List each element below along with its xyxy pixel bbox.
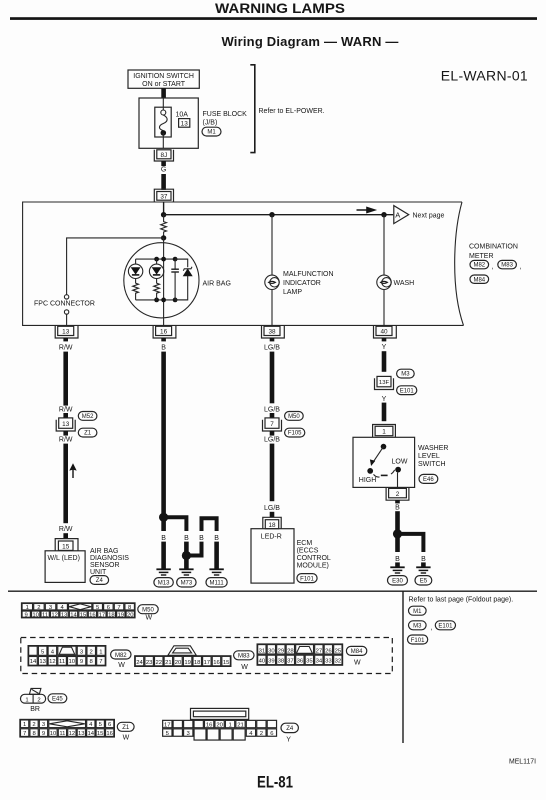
connector plug Z1 xyxy=(20,719,115,737)
svg-text:B: B xyxy=(161,345,166,352)
svg-text:18: 18 xyxy=(108,612,115,618)
svg-text:INDICATOR: INDICATOR xyxy=(283,280,321,287)
svg-text:LG/B: LG/B xyxy=(264,345,280,352)
svg-text:LG/B: LG/B xyxy=(264,437,280,444)
refer column separator xyxy=(402,591,404,743)
svg-text:R/W: R/W xyxy=(59,526,73,533)
next page triangle A xyxy=(394,206,445,224)
svg-text:W: W xyxy=(118,662,125,669)
node top junction xyxy=(161,212,166,217)
wire third branch upper xyxy=(202,518,217,531)
svg-text:15: 15 xyxy=(80,612,87,618)
connector oval E46 xyxy=(419,474,438,483)
fuse 10A (fuse element) xyxy=(155,98,171,148)
svg-text:2: 2 xyxy=(32,722,35,728)
svg-text:B: B xyxy=(199,535,204,542)
svg-text:,: , xyxy=(520,264,522,271)
svg-text:M50: M50 xyxy=(288,414,300,420)
connector 13 (meter) xyxy=(55,326,78,338)
svg-text:M1: M1 xyxy=(207,130,216,136)
connector oval E101 xyxy=(397,386,417,395)
svg-text:15: 15 xyxy=(223,660,230,666)
wire stub under 38 xyxy=(270,338,275,341)
wash lamp wire xyxy=(381,212,386,217)
ECM label xyxy=(297,540,331,570)
wire stub above 15 xyxy=(63,533,68,538)
svg-text:40: 40 xyxy=(380,329,388,336)
svg-text:16: 16 xyxy=(89,612,96,618)
inline connector 13 (M52/Z1) xyxy=(56,418,75,431)
node M73 junction xyxy=(182,551,191,560)
svg-text:2: 2 xyxy=(37,697,40,703)
svg-text:FPC CONNECTOR: FPC CONNECTOR xyxy=(34,301,95,308)
bottom bus in air bag xyxy=(136,299,188,301)
wire B to ground M13 xyxy=(161,542,166,569)
wire G vertical xyxy=(161,174,166,190)
switch contact LOW xyxy=(395,467,401,473)
svg-text:2: 2 xyxy=(396,491,400,498)
svg-text:W: W xyxy=(354,659,361,666)
svg-text:E46: E46 xyxy=(423,477,434,483)
connector oval E101 (refer) xyxy=(435,621,455,630)
svg-text:EL-81: EL-81 xyxy=(257,772,293,791)
wire color B labels row xyxy=(161,535,219,542)
svg-text:13F: 13F xyxy=(379,380,390,386)
svg-text:E30: E30 xyxy=(392,579,403,585)
svg-text:35: 35 xyxy=(306,659,313,665)
connector plug E45 xyxy=(21,688,46,703)
dashed meter-connector group box xyxy=(21,638,393,674)
svg-text:11: 11 xyxy=(59,659,65,665)
svg-text:A: A xyxy=(395,211,400,220)
svg-text:3: 3 xyxy=(80,649,84,655)
svg-text:Next page: Next page xyxy=(413,212,445,219)
svg-text:13: 13 xyxy=(62,329,70,336)
svg-text:Y: Y xyxy=(382,396,387,403)
svg-text:(ECCS: (ECCS xyxy=(297,547,319,554)
connector oval M50 (inline) xyxy=(285,412,304,421)
svg-text:1: 1 xyxy=(382,429,386,436)
connector 15 (air bag unit) xyxy=(55,539,78,551)
svg-text:IGNITION SWITCH: IGNITION SWITCH xyxy=(133,73,194,80)
wire B to ground M111 xyxy=(214,542,219,569)
svg-text:12: 12 xyxy=(49,659,56,665)
svg-text:B: B xyxy=(395,504,400,511)
switch pivot xyxy=(381,444,387,450)
connector oval M83 xyxy=(234,651,254,671)
svg-text:LOW: LOW xyxy=(392,459,408,466)
svg-text:CONTROL: CONTROL xyxy=(297,555,331,562)
svg-text:1: 1 xyxy=(228,722,231,728)
svg-text:F101: F101 xyxy=(411,638,425,644)
malfunction indicator lamp wire xyxy=(269,212,274,217)
svg-text:ECM: ECM xyxy=(297,540,313,547)
wire B vertical xyxy=(161,352,166,515)
washer level switch box xyxy=(353,437,415,487)
svg-text:E45: E45 xyxy=(52,697,63,703)
wire Y vertical lower xyxy=(382,403,387,422)
svg-text:M73: M73 xyxy=(181,581,193,587)
svg-text:W/L (LED): W/L (LED) xyxy=(48,555,80,562)
svg-text:7: 7 xyxy=(23,731,26,737)
diagram id EL-WARN-01 xyxy=(441,68,528,84)
ground M111 xyxy=(209,569,223,575)
svg-text:31: 31 xyxy=(259,648,266,654)
svg-text:M52: M52 xyxy=(82,414,94,420)
svg-text:M82: M82 xyxy=(473,263,485,269)
svg-text:4: 4 xyxy=(51,649,55,655)
label FUSE BLOCK (J/B) xyxy=(203,111,248,127)
svg-text:29: 29 xyxy=(278,648,285,654)
FPC connector xyxy=(34,295,95,326)
svg-text:LG/B: LG/B xyxy=(264,505,280,512)
svg-text:B: B xyxy=(184,535,189,542)
fuse block box xyxy=(139,98,198,148)
svg-text:B: B xyxy=(421,556,426,563)
svg-text:MALFUNCTION: MALFUNCTION xyxy=(283,271,334,278)
wire stub below inline 13 xyxy=(63,431,68,436)
svg-text:EL-WARN-01: EL-WARN-01 xyxy=(441,68,528,84)
connector oval F105 xyxy=(285,428,305,437)
connector plug Z4 xyxy=(163,708,277,740)
svg-text:M83: M83 xyxy=(501,263,513,269)
bus junction dots xyxy=(154,257,177,303)
connector oval M82 xyxy=(470,260,494,270)
svg-text:W: W xyxy=(123,735,130,742)
svg-text:20: 20 xyxy=(127,612,134,618)
svg-text:HIGH: HIGH xyxy=(359,477,377,484)
combination meter label xyxy=(469,244,518,261)
svg-text:SWITCH: SWITCH xyxy=(418,461,446,468)
wire stub under 13 xyxy=(63,338,68,341)
connector 8J xyxy=(154,150,173,161)
svg-text:W: W xyxy=(241,664,248,671)
connector oval M82 xyxy=(111,650,131,669)
switch arm with arrowhead xyxy=(370,447,384,466)
wire LG/B vertical lower xyxy=(270,444,275,502)
svg-text:SENSOR: SENSOR xyxy=(90,562,120,569)
wire branch right from B junction xyxy=(164,517,187,531)
svg-text:Y: Y xyxy=(286,736,291,743)
svg-text:WARNING LAMPS: WARNING LAMPS xyxy=(215,1,345,16)
connector oval M1 xyxy=(202,127,221,136)
bracket refer to EL-POWER xyxy=(250,65,255,153)
svg-text:13: 13 xyxy=(39,659,46,665)
svg-text:2: 2 xyxy=(90,649,93,655)
svg-text:2: 2 xyxy=(260,731,263,737)
svg-text:16: 16 xyxy=(160,329,168,336)
wire Y vertical xyxy=(382,351,387,372)
svg-text:,: , xyxy=(492,264,494,271)
svg-text:FUSE BLOCK: FUSE BLOCK xyxy=(203,111,248,118)
svg-text:DIAGNOSIS: DIAGNOSIS xyxy=(90,555,129,562)
connector oval E45 xyxy=(30,694,67,713)
svg-text:9: 9 xyxy=(25,612,28,618)
svg-text:21: 21 xyxy=(237,722,244,728)
inline connector 13F (M3/E101) xyxy=(375,376,394,389)
connector 1 (washer switch) xyxy=(373,425,396,438)
svg-text:M82: M82 xyxy=(115,653,127,659)
svg-text:37: 37 xyxy=(160,193,168,200)
svg-text:26: 26 xyxy=(325,648,332,654)
svg-text:14: 14 xyxy=(70,612,77,618)
svg-text:28: 28 xyxy=(287,648,294,654)
wire horizontal bus to next page xyxy=(164,214,394,216)
svg-text:G: G xyxy=(161,167,166,174)
footer separator line xyxy=(8,590,537,592)
svg-text:1: 1 xyxy=(23,722,26,728)
connector 40 (meter) xyxy=(374,326,397,338)
svg-text:R/W: R/W xyxy=(59,437,73,444)
svg-text:1: 1 xyxy=(99,649,102,655)
connector oval M50 (plug) xyxy=(138,605,158,622)
svg-text:40: 40 xyxy=(259,659,266,665)
connector oval F101 xyxy=(297,574,317,583)
svg-text:13: 13 xyxy=(181,120,189,127)
svg-text:E5: E5 xyxy=(420,579,428,585)
svg-text:LAMP: LAMP xyxy=(283,289,302,296)
svg-text:32: 32 xyxy=(335,659,342,665)
svg-text:37: 37 xyxy=(287,659,294,665)
svg-text:13: 13 xyxy=(61,612,68,618)
wire B washer vertical xyxy=(395,511,400,532)
switch labels xyxy=(359,459,408,484)
svg-text:,: , xyxy=(430,625,432,632)
combination meter box (torn right edge) xyxy=(23,202,464,325)
connector 16 (meter) xyxy=(153,326,176,338)
svg-text:20: 20 xyxy=(175,660,182,666)
svg-text:B: B xyxy=(395,556,400,563)
svg-text:14: 14 xyxy=(30,659,37,665)
flow arrow above wire xyxy=(357,208,375,213)
connector oval M84 xyxy=(346,646,366,666)
svg-text:W: W xyxy=(146,615,153,622)
ignition switch box xyxy=(128,70,199,88)
svg-text:10: 10 xyxy=(50,731,57,737)
svg-text:M3: M3 xyxy=(401,372,410,378)
connector plug M84 xyxy=(257,644,343,665)
connector oval F101 (refer) xyxy=(408,635,428,644)
svg-text:M50: M50 xyxy=(142,608,154,614)
svg-text:7: 7 xyxy=(117,605,120,611)
node B junction xyxy=(159,513,168,522)
connector oval M3 xyxy=(397,369,415,378)
wire stub under 16 xyxy=(161,338,166,341)
connector plug M83 xyxy=(135,646,231,667)
wire B to ground M73 xyxy=(184,542,189,556)
wire stub under 2 xyxy=(395,500,400,503)
svg-text:38: 38 xyxy=(278,659,285,665)
subtitle xyxy=(221,34,398,49)
svg-text:38: 38 xyxy=(268,329,276,336)
wire B continues to E30 xyxy=(395,536,400,552)
wire stub below inline 7 xyxy=(270,431,275,436)
header title xyxy=(10,1,537,20)
svg-text:8J: 8J xyxy=(161,152,168,159)
node washer B junction xyxy=(393,529,402,538)
svg-text:B: B xyxy=(214,535,219,542)
connector oval M83 xyxy=(498,260,522,270)
connector oval Z4 (plug) xyxy=(281,723,298,743)
svg-text:11: 11 xyxy=(59,731,65,737)
wire loop junction to third branch xyxy=(186,542,201,556)
capacitor xyxy=(171,259,179,300)
svg-text:21: 21 xyxy=(165,660,172,666)
connector oval E5 xyxy=(415,576,432,585)
svg-text:M84: M84 xyxy=(351,649,363,655)
svg-text:12: 12 xyxy=(51,612,58,618)
wire LG/B vertical xyxy=(270,352,275,404)
svg-text:M111: M111 xyxy=(210,581,225,587)
svg-text:Refer to last page (Foldout pa: Refer to last page (Foldout page). xyxy=(409,597,514,604)
connector oval Z4 (unit) xyxy=(90,576,109,585)
svg-text:LEVEL: LEVEL xyxy=(418,453,440,460)
svg-text:E101: E101 xyxy=(438,624,453,630)
svg-text:9: 9 xyxy=(80,659,83,665)
svg-text:14: 14 xyxy=(88,731,95,737)
connector oval M3 (refer) xyxy=(409,621,433,632)
svg-text:18: 18 xyxy=(194,660,201,666)
connector oval Z1 (inline) xyxy=(78,428,97,437)
svg-text:30: 30 xyxy=(268,648,275,654)
malfunction indicator lamp xyxy=(265,275,279,325)
washer level switch label xyxy=(418,445,448,468)
svg-text:15: 15 xyxy=(62,543,70,550)
svg-text:Z1: Z1 xyxy=(84,431,92,437)
svg-text:1: 1 xyxy=(25,697,28,703)
LED 2 xyxy=(149,259,163,283)
fuse number 13 box xyxy=(179,119,190,128)
direction arrow on wire xyxy=(71,465,76,478)
svg-text:18: 18 xyxy=(268,522,276,529)
inline connector 7 (M50/F105) xyxy=(263,418,282,431)
wire from LOW to terminal 2 xyxy=(397,473,399,488)
svg-text:17: 17 xyxy=(204,660,211,666)
svg-text:METER: METER xyxy=(469,253,494,260)
connector oval M73 xyxy=(177,578,196,587)
svg-text:WASH: WASH xyxy=(394,280,415,287)
resistor in meter xyxy=(161,215,167,238)
svg-text:5: 5 xyxy=(41,649,45,655)
switch contact HIGH xyxy=(367,468,373,474)
LED 1 xyxy=(128,259,142,283)
svg-text:23: 23 xyxy=(146,660,153,666)
wire color B labels washer xyxy=(395,556,426,563)
connector oval M52 xyxy=(78,412,97,421)
ECM box xyxy=(251,529,294,583)
connector oval E30 xyxy=(388,576,408,585)
svg-text:17: 17 xyxy=(99,612,106,618)
svg-text:2: 2 xyxy=(37,605,40,611)
wire stub ignition to fuse block xyxy=(161,88,166,98)
svg-text:M3: M3 xyxy=(413,624,422,630)
wire R/W vertical xyxy=(63,352,68,406)
connector plug M50 xyxy=(22,603,136,618)
svg-text:MEL117I: MEL117I xyxy=(509,757,536,766)
svg-text:13: 13 xyxy=(78,731,85,737)
svg-text:B: B xyxy=(161,535,166,542)
svg-text:9: 9 xyxy=(42,731,45,737)
air bag diagnosis sensor unit box xyxy=(45,551,85,583)
wire M73 junction to ground xyxy=(184,557,189,569)
svg-text:Refer to EL-POWER.: Refer to EL-POWER. xyxy=(259,108,325,115)
svg-text:F105: F105 xyxy=(288,431,302,437)
svg-text:8: 8 xyxy=(90,659,94,665)
top bus in air bag xyxy=(136,258,188,260)
wire stub above 18 xyxy=(270,512,275,517)
svg-text:(J/B): (J/B) xyxy=(203,119,218,126)
air bag lamp circle xyxy=(124,243,199,318)
svg-text:12: 12 xyxy=(69,731,76,737)
svg-text:33: 33 xyxy=(325,659,332,665)
svg-text:MODULE): MODULE) xyxy=(297,562,329,569)
svg-text:34: 34 xyxy=(316,659,323,665)
wash lamp xyxy=(377,275,391,325)
svg-text:39: 39 xyxy=(268,659,275,665)
connector oval M111 xyxy=(206,578,227,587)
ground E5 xyxy=(416,567,430,573)
svg-text:27: 27 xyxy=(316,648,323,654)
ground E30 xyxy=(390,567,404,573)
contact ticks and dash xyxy=(374,470,395,477)
svg-text:Z4: Z4 xyxy=(96,578,104,584)
wire R/W vertical lower xyxy=(63,444,68,524)
svg-text:15: 15 xyxy=(97,731,104,737)
svg-text:7: 7 xyxy=(99,659,102,665)
resistor under LED1 xyxy=(133,283,139,300)
malfunction indicator lamp label xyxy=(283,271,334,296)
svg-text:AIR BAG: AIR BAG xyxy=(90,548,118,555)
wire B to ground E5 xyxy=(421,562,426,566)
ground M73 xyxy=(179,569,193,575)
svg-text:M83: M83 xyxy=(238,654,250,660)
svg-text:M1: M1 xyxy=(413,609,422,615)
svg-text:10: 10 xyxy=(32,612,39,618)
svg-text:11: 11 xyxy=(42,612,48,618)
svg-text:BR: BR xyxy=(30,706,40,713)
wire left to FPC connector xyxy=(67,238,164,295)
svg-text:LED-R: LED-R xyxy=(261,533,282,540)
connector 38 (meter) xyxy=(262,326,285,338)
ground M13 xyxy=(156,569,170,575)
center wire through air bag xyxy=(163,238,165,326)
svg-text:16: 16 xyxy=(106,731,113,737)
wire stub above inline 7 xyxy=(270,413,275,418)
svg-text:36: 36 xyxy=(297,659,304,665)
wire B to ground E30 xyxy=(395,562,400,566)
wire stub above inline 13 xyxy=(63,413,68,418)
svg-text:10: 10 xyxy=(69,659,76,665)
svg-text:ON or START: ON or START xyxy=(142,81,186,88)
svg-text:COMBINATION: COMBINATION xyxy=(469,244,518,251)
connector 37 xyxy=(154,189,173,202)
zener diode xyxy=(175,259,192,300)
svg-text:E101: E101 xyxy=(400,388,415,394)
wire stub under 40 xyxy=(382,338,387,341)
svg-text:Z4: Z4 xyxy=(286,726,294,732)
svg-text:19: 19 xyxy=(184,660,191,666)
svg-text:Wiring Diagram — WARN —: Wiring Diagram — WARN — xyxy=(221,34,398,49)
svg-text:R/W: R/W xyxy=(59,406,73,413)
svg-text:Z1: Z1 xyxy=(122,725,130,731)
air bag diagnosis sensor unit label xyxy=(90,548,129,576)
svg-text:19: 19 xyxy=(118,612,125,618)
svg-text:7: 7 xyxy=(270,421,274,428)
wire from 37 into meter xyxy=(163,202,165,215)
svg-text:M84: M84 xyxy=(473,277,485,283)
svg-text:F101: F101 xyxy=(300,576,314,582)
svg-text:Y: Y xyxy=(382,344,387,351)
